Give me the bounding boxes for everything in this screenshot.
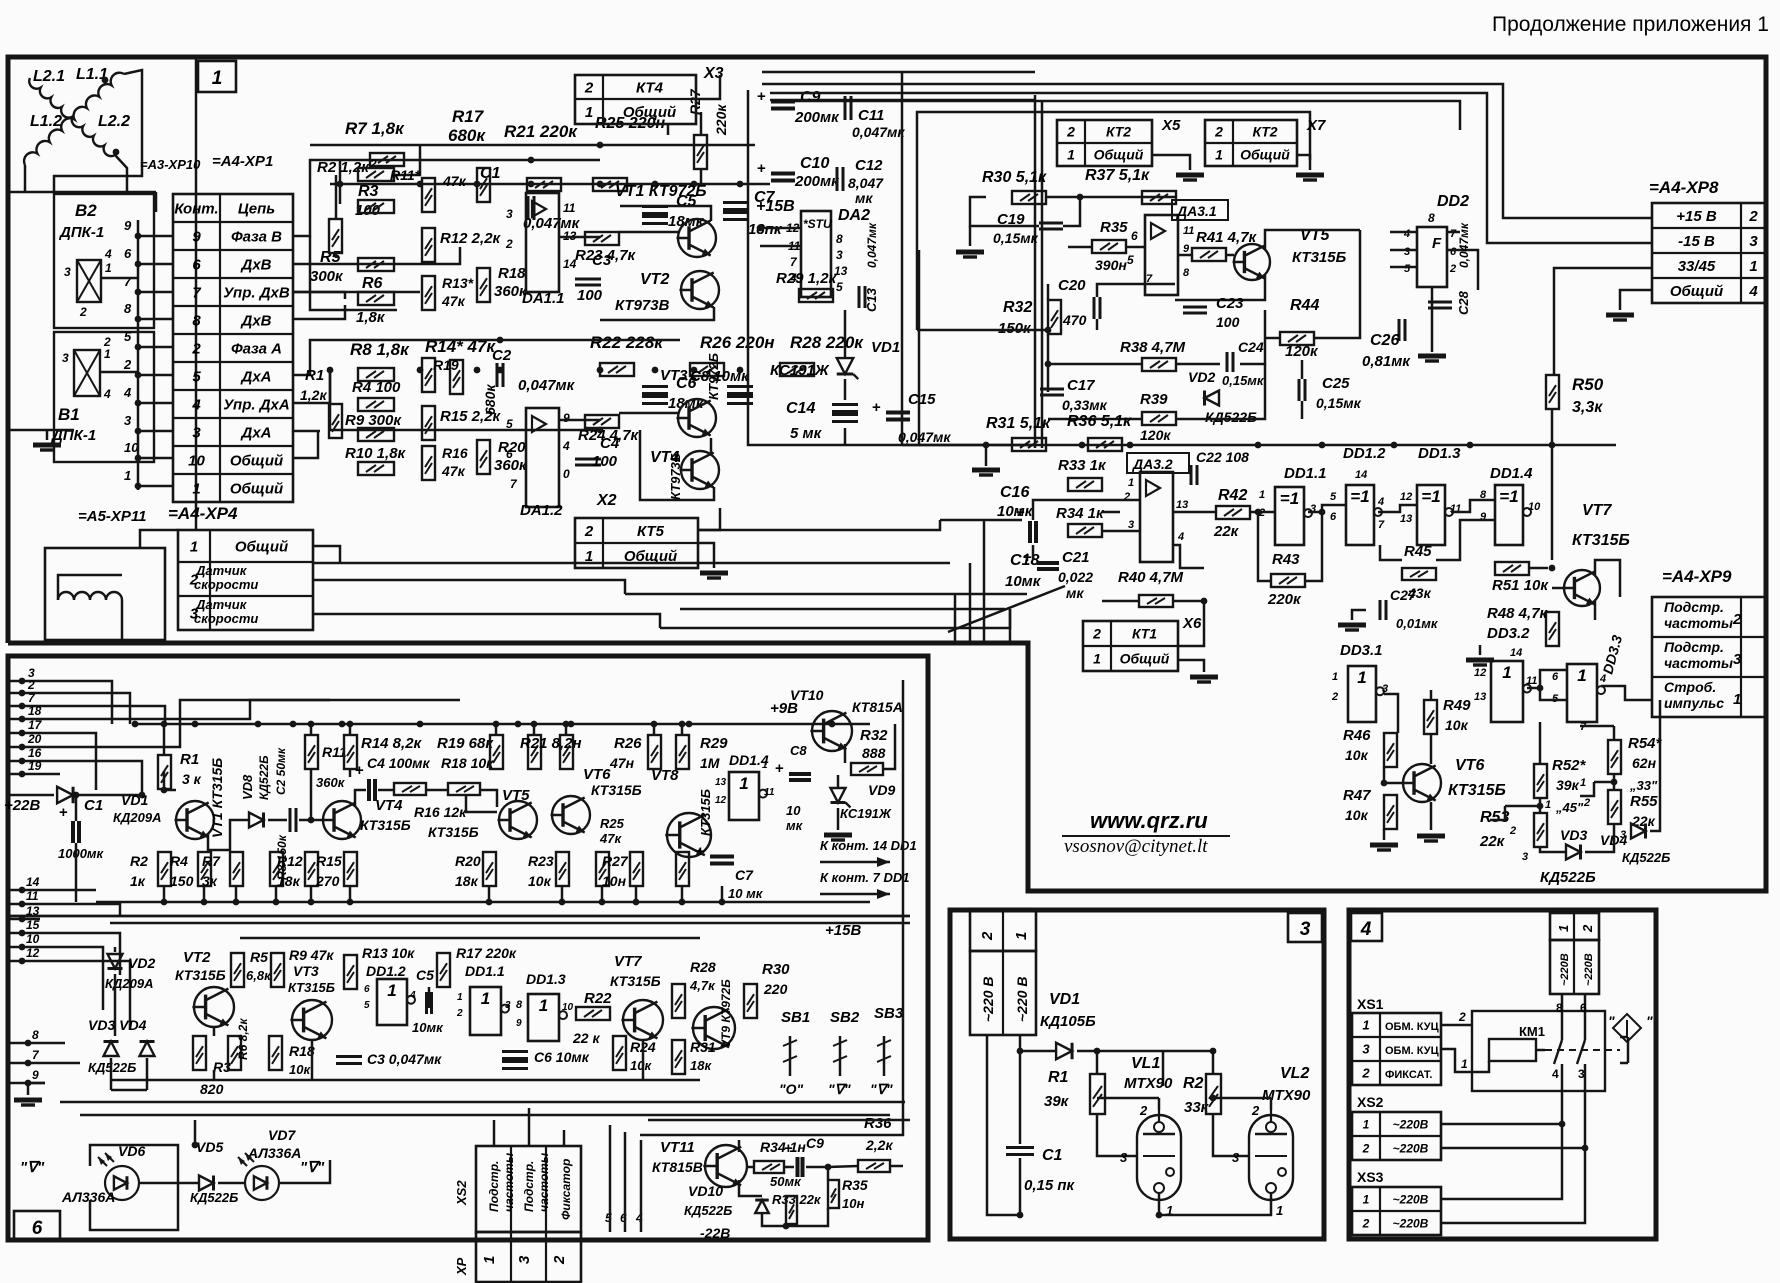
svg-text:5: 5 — [1127, 253, 1134, 267]
svg-text:Общий: Общий — [1120, 651, 1170, 667]
svg-text:6: 6 — [1131, 229, 1138, 243]
resistor R9b — [271, 953, 284, 987]
svg-text:13: 13 — [715, 777, 727, 788]
svg-text:1: 1 — [1545, 799, 1551, 811]
capacitor C19 — [1039, 222, 1063, 225]
capacitor C6b — [502, 1050, 528, 1053]
svg-text:C13: C13 — [864, 287, 879, 312]
svg-text:VL2: VL2 — [1280, 1065, 1309, 1082]
svg-text:Х7: Х7 — [1306, 117, 1326, 134]
svg-text:1: 1 — [1013, 932, 1030, 940]
svg-text:R33 1к: R33 1к — [1058, 457, 1107, 474]
wire C16 rail — [940, 519, 1022, 522]
resistor R18b vert — [528, 735, 541, 769]
svg-text:4: 4 — [1403, 228, 1410, 240]
sensor B1 X box — [74, 350, 100, 396]
svg-text:270: 270 — [315, 873, 340, 889]
svg-text:F: F — [1432, 235, 1442, 252]
svg-text:2: 2 — [1748, 208, 1758, 225]
svg-text:+: + — [1023, 549, 1032, 566]
inner box right — [648, 1119, 910, 1122]
svg-text:10: 10 — [26, 932, 40, 946]
svg-text:8: 8 — [516, 999, 523, 1011]
wires VT7 — [1529, 567, 1548, 570]
svg-text:150: 150 — [170, 873, 194, 889]
wire rail y145 — [310, 144, 755, 147]
svg-text:ДПК-1: ДПК-1 — [58, 224, 104, 241]
resistor R15 vert — [422, 406, 435, 440]
svg-text:Общий: Общий — [230, 452, 283, 469]
svg-text:КТ973В: КТ973В — [615, 297, 670, 314]
svg-text:C4 100мк: C4 100мк — [367, 755, 431, 771]
resistor R14b — [394, 783, 426, 795]
wires sensors to XP1 with pin numbers — [138, 235, 173, 238]
svg-text:R44: R44 — [1290, 297, 1319, 314]
wires VT1 VT2 — [619, 231, 678, 234]
block 6 frame — [8, 656, 928, 1240]
svg-text:200мк: 200мк — [794, 173, 840, 190]
svg-text:R19 68к: R19 68к — [437, 735, 494, 752]
wire R41 VT5 — [1178, 254, 1192, 257]
ground sensor left — [8, 429, 74, 432]
svg-text:DA2: DA2 — [838, 207, 870, 224]
capacitor C5b — [425, 992, 428, 1014]
resistor R30b — [744, 984, 757, 1018]
svg-text:0: 0 — [563, 467, 570, 481]
svg-text:+: + — [872, 399, 881, 416]
svg-text:4: 4 — [562, 439, 570, 453]
svg-text:"∇": "∇" — [870, 1081, 893, 1097]
svg-text:частоты: частоты — [1664, 655, 1733, 671]
svg-text:C5: C5 — [416, 967, 434, 983]
svg-text:4: 4 — [1748, 283, 1758, 300]
resistor R18 360k — [477, 268, 490, 302]
thyratron VL2 — [1249, 1115, 1293, 1200]
svg-text:КТ315Б: КТ315Б — [175, 967, 226, 983]
svg-text:5: 5 — [506, 417, 513, 431]
svg-text:R18 10к: R18 10к — [441, 755, 494, 771]
svg-text:VD9: VD9 — [868, 782, 895, 798]
svg-text:ХР: ХР — [454, 1257, 469, 1276]
svg-text:1: 1 — [1363, 1117, 1370, 1131]
svg-text:2: 2 — [123, 357, 132, 372]
diode VD4 — [1631, 824, 1646, 839]
svg-text:КТ315Б: КТ315Б — [1448, 782, 1506, 799]
wire coil leads — [115, 155, 127, 192]
svg-text:2: 2 — [27, 678, 35, 692]
capacitor C23 — [1183, 306, 1207, 309]
svg-text:R35: R35 — [842, 1177, 868, 1193]
svg-text:1: 1 — [1332, 671, 1338, 683]
block 3 frame — [950, 910, 1324, 1239]
trunk rail R31 R36 — [902, 444, 1616, 447]
svg-text:SB2: SB2 — [830, 1009, 860, 1026]
svg-text:"∇": "∇" — [20, 1159, 45, 1176]
svg-text:DD1.3: DD1.3 — [1418, 445, 1461, 462]
svg-text:1,2к: 1,2к — [300, 387, 327, 403]
svg-text:DD1.4: DD1.4 — [1490, 465, 1533, 482]
svg-text:Общий: Общий — [235, 538, 288, 555]
svg-text:9: 9 — [516, 1018, 522, 1029]
svg-text:C23: C23 — [1216, 295, 1244, 312]
svg-text:VT1 КТ315Б: VT1 КТ315Б — [209, 758, 225, 838]
svg-text:R50: R50 — [1572, 375, 1604, 394]
svg-text:12: 12 — [1400, 491, 1412, 503]
svg-text:VT5: VT5 — [502, 787, 530, 804]
svg-text:XS3: XS3 — [1357, 1169, 1384, 1185]
svg-text:В1: В1 — [58, 405, 80, 424]
svg-text:9: 9 — [32, 1068, 39, 1082]
connector table XP1 — [173, 194, 293, 502]
capacitor C8 — [727, 385, 753, 388]
vertical inter-block wires — [954, 594, 957, 643]
transistor VT10 — [812, 711, 852, 751]
connector table X5 — [1057, 120, 1152, 166]
resistor R35b — [828, 1180, 839, 1208]
svg-text:2: 2 — [1580, 924, 1595, 933]
svg-text:КС191Ж: КС191Ж — [840, 806, 892, 821]
diode VD1 block3 — [1056, 1043, 1072, 1060]
svg-text:Датчик: Датчик — [195, 597, 248, 612]
resistor R6b — [228, 1036, 241, 1070]
capacitor C2 — [496, 363, 499, 387]
svg-text:VD3 VD4: VD3 VD4 — [88, 1017, 147, 1033]
svg-text:3: 3 — [1362, 1042, 1370, 1057]
svg-text:~220В: ~220В — [1583, 953, 1595, 986]
svg-text:10к: 10к — [1445, 717, 1469, 733]
svg-text:6: 6 — [1330, 511, 1337, 523]
svg-text:0,047мк: 0,047мк — [898, 429, 951, 445]
capacitor C25 — [1298, 379, 1301, 401]
block4 connector table 220V rotated — [1550, 913, 1599, 940]
svg-text:КТ2: КТ2 — [1106, 124, 1131, 140]
svg-text:R52*: R52* — [1552, 757, 1587, 774]
svg-text:VT6: VT6 — [1455, 757, 1484, 774]
svg-text:5: 5 — [1404, 263, 1411, 275]
svg-text:„33": „33" — [1629, 778, 1658, 793]
svg-text:КД105Б: КД105Б — [1040, 1013, 1096, 1030]
svg-text:C3: C3 — [592, 252, 612, 269]
svg-text:888: 888 — [862, 745, 886, 761]
resistor R32 150k — [1048, 300, 1061, 334]
svg-text:2: 2 — [551, 1255, 568, 1265]
junction dots rail A — [327, 367, 334, 374]
svg-text:0,15мк: 0,15мк — [1222, 373, 1265, 388]
svg-text:2: 2 — [584, 523, 594, 540]
wire KT5 — [698, 543, 714, 568]
transistor VT3b — [292, 1000, 332, 1040]
svg-text:100: 100 — [1216, 314, 1240, 330]
svg-text:4: 4 — [409, 990, 416, 1001]
svg-text:10к: 10к — [1345, 807, 1369, 823]
svg-text:DD2: DD2 — [1437, 193, 1469, 210]
capacitor C1 — [527, 196, 530, 220]
svg-text:Упр. ДхА: Упр. ДхА — [223, 396, 289, 413]
svg-text:DD1.1: DD1.1 — [465, 963, 505, 979]
transistor VT5b — [499, 801, 537, 839]
svg-text:4: 4 — [1377, 496, 1384, 508]
wires R52-R55 cluster — [1539, 722, 1542, 764]
wires VT11 area — [739, 1180, 762, 1196]
svg-text:частоты: частоты — [537, 1152, 551, 1212]
sensor B1 DPK-1 box — [54, 332, 154, 462]
svg-text:8: 8 — [1556, 1001, 1563, 1015]
svg-text:1: 1 — [1363, 1192, 1370, 1206]
svg-text:7: 7 — [192, 284, 201, 301]
capacitor C22 — [1190, 465, 1193, 485]
wires C4-R16 — [355, 790, 366, 807]
wires DD1 gates — [1250, 511, 1275, 514]
svg-text:150к: 150к — [998, 320, 1032, 337]
svg-text:3: 3 — [192, 424, 201, 441]
svg-text:12: 12 — [715, 795, 727, 806]
resistor R1b 3k — [158, 755, 171, 789]
svg-text:10мк: 10мк — [1005, 573, 1042, 590]
svg-text:R21 220к: R21 220к — [504, 122, 578, 141]
svg-text:ДхА: ДхА — [239, 368, 271, 385]
numbered input stubs top — [8, 680, 40, 683]
svg-text:Х5: Х5 — [1161, 117, 1181, 134]
svg-text:220к: 220к — [713, 104, 729, 136]
svg-text:VT6: VT6 — [583, 766, 611, 783]
svg-text:R4: R4 — [170, 853, 188, 869]
svg-text:1: 1 — [105, 261, 112, 275]
svg-text:6: 6 — [1580, 1001, 1587, 1015]
svg-text:VD2: VD2 — [128, 955, 155, 971]
svg-text:3: 3 — [836, 248, 843, 262]
svg-text:C3 0,047мк: C3 0,047мк — [367, 1051, 442, 1067]
capacitor C3b — [336, 1055, 362, 1058]
svg-text:R28 220к: R28 220к — [790, 333, 864, 352]
op-amp DA3.2 — [1140, 472, 1173, 562]
svg-text:4: 4 — [104, 247, 112, 261]
svg-text:1: 1 — [1502, 663, 1511, 682]
svg-text:КТ5: КТ5 — [637, 523, 665, 540]
resistor R2 vertical — [329, 219, 342, 253]
row A bottom rail — [96, 901, 870, 904]
capacitor C5 — [642, 205, 668, 208]
svg-text:1: 1 — [104, 347, 111, 361]
trunk wire +15V to XP8 — [762, 84, 1652, 218]
svg-text:~220 В: ~220 В — [980, 976, 996, 1022]
svg-text:R14 8,2к: R14 8,2к — [361, 735, 423, 752]
svg-text:0,047мк: 0,047мк — [1457, 222, 1471, 268]
svg-text:ОБМ. КУЦ: ОБМ. КУЦ — [1385, 1021, 1439, 1033]
wires DA3.2 — [1033, 500, 1140, 520]
svg-text:3 к: 3 к — [182, 771, 202, 787]
svg-text:+15 В: +15 В — [1676, 208, 1717, 225]
svg-text:КТ315Б: КТ315Б — [591, 782, 642, 798]
svg-text:КТ1: КТ1 — [1132, 626, 1157, 642]
transistor VT4b — [323, 801, 361, 839]
svg-text:22к: 22к — [1213, 523, 1240, 540]
svg-text:VT2: VT2 — [640, 271, 669, 288]
svg-text:10к: 10к — [1345, 747, 1369, 763]
resistor R24b — [613, 1036, 626, 1070]
wires XS2 XS3 to contacts — [1441, 1123, 1562, 1126]
svg-text:R7 1,8к: R7 1,8к — [345, 119, 405, 138]
svg-text:VT8: VT8 — [651, 767, 679, 784]
svg-text:0,33мк: 0,33мк — [1062, 397, 1108, 413]
svg-text:VL1: VL1 — [1131, 1055, 1160, 1072]
svg-text:L2.1: L2.1 — [33, 68, 65, 85]
svg-text:~220В: ~220В — [1393, 1216, 1429, 1230]
wires XP1 row exits — [293, 247, 460, 264]
svg-text:47к: 47к — [441, 463, 466, 479]
svg-text:1: 1 — [1461, 1057, 1468, 1071]
wire X3 — [696, 75, 720, 99]
capacitor C27 — [1379, 600, 1382, 620]
svg-text:DA1.2: DA1.2 — [520, 502, 563, 519]
svg-text:www.qrz.ru: www.qrz.ru — [1090, 808, 1208, 833]
svg-text:3: 3 — [1120, 1150, 1128, 1165]
resistor R11* 47k — [422, 178, 435, 212]
svg-text:100: 100 — [577, 287, 603, 304]
junction dots y445 rail — [1127, 442, 1134, 449]
resistor R5b — [231, 953, 244, 987]
svg-text:220к: 220к — [1267, 591, 1302, 608]
svg-text:680к: 680к — [448, 126, 486, 145]
svg-text:VT7: VT7 — [1582, 502, 1612, 519]
wires DA2 left — [760, 227, 801, 230]
svg-text:+: + — [757, 160, 766, 177]
connector table XP8 — [1652, 203, 1766, 303]
svg-text:VD1: VD1 — [871, 339, 900, 356]
svg-text:1: 1 — [1357, 668, 1366, 687]
svg-text:Цепь: Цепь — [238, 200, 275, 217]
block 6 label box — [14, 1211, 60, 1241]
resistor R50 3,3k — [1546, 375, 1559, 409]
transistor VT7b — [623, 1000, 663, 1040]
block3 connector table 220V — [970, 911, 1036, 951]
svg-text:Общий: Общий — [623, 104, 676, 121]
svg-text:КТ2: КТ2 — [1252, 124, 1277, 140]
svg-text:6: 6 — [1552, 671, 1559, 683]
svg-text:3: 3 — [64, 265, 71, 279]
gate DD3.3 — [1567, 664, 1597, 722]
svg-text:1: 1 — [585, 104, 593, 121]
svg-text:КД522Б: КД522Б — [257, 755, 271, 800]
svg-text:2: 2 — [456, 1008, 463, 1019]
svg-text:R42: R42 — [1218, 487, 1247, 504]
svg-text:3: 3 — [516, 1255, 533, 1264]
svg-text:33/45: 33/45 — [1678, 258, 1716, 275]
resistor R13 47k — [422, 276, 435, 310]
svg-text:3: 3 — [1733, 651, 1742, 668]
svg-text:C7: C7 — [735, 867, 754, 883]
svg-text:8,047: 8,047 — [848, 175, 884, 191]
gate DD1.2 — [1346, 485, 1374, 545]
svg-text:Подстр.: Подстр. — [1664, 639, 1724, 655]
svg-text:+: + — [355, 762, 364, 779]
svg-text:C27: C27 — [1390, 587, 1417, 603]
bottom row resistors under row A — [158, 852, 171, 886]
svg-text:4: 4 — [1360, 919, 1372, 940]
svg-text:VT7: VT7 — [614, 953, 642, 970]
svg-text:КТ815В: КТ815В — [652, 1159, 703, 1175]
svg-text:0,047мк: 0,047мк — [518, 377, 576, 394]
svg-text:8: 8 — [124, 301, 132, 316]
wire sensor collector — [137, 220, 140, 490]
svg-text:+: + — [59, 804, 68, 821]
svg-text:-15 В: -15 В — [1678, 233, 1715, 250]
resistor R53 22k — [1534, 813, 1547, 847]
resistor R49 10k — [1424, 700, 1437, 734]
svg-text:0,81мк: 0,81мк — [1362, 353, 1411, 370]
relay contacts — [1561, 994, 1564, 1040]
svg-text:частоты: частоты — [1664, 615, 1733, 631]
transistor VT5 — [1234, 244, 1270, 280]
svg-text:3: 3 — [506, 207, 513, 221]
svg-text:100: 100 — [592, 453, 618, 470]
svg-text:R29 1,2к: R29 1,2к — [776, 270, 838, 287]
svg-text:C6 10мк: C6 10мк — [534, 1049, 590, 1065]
resistor R11b 360k — [305, 735, 318, 769]
ground C19 — [969, 226, 972, 246]
svg-text:R32: R32 — [1003, 299, 1032, 316]
svg-text:2: 2 — [1361, 1066, 1370, 1081]
svg-text:2: 2 — [584, 79, 594, 96]
svg-text:R10 1,8к: R10 1,8к — [345, 445, 407, 462]
resistor R9 — [358, 428, 394, 441]
svg-text:ДхА: ДхА — [239, 424, 271, 441]
svg-text:"∇": "∇" — [828, 1081, 851, 1097]
resistor R13b — [344, 735, 357, 769]
svg-text:R2: R2 — [1183, 1075, 1204, 1092]
wires KM1 — [1441, 1024, 1472, 1027]
svg-text:КМ1: КМ1 — [1519, 1024, 1545, 1039]
svg-text:~220 В: ~220 В — [1014, 976, 1030, 1022]
svg-text:12: 12 — [26, 946, 40, 960]
svg-text:5: 5 — [124, 329, 132, 344]
svg-text:R9 47к: R9 47к — [289, 947, 334, 963]
svg-text:+: + — [1016, 504, 1025, 521]
wires VT10 area — [844, 744, 847, 763]
wire XP8 gnd — [1620, 290, 1652, 310]
svg-text:22к: 22к — [1479, 833, 1506, 850]
svg-text:1: 1 — [762, 760, 768, 771]
svg-text:DD1.2: DD1.2 — [366, 963, 406, 979]
resistor R27 — [694, 135, 707, 169]
svg-text:АЛ336А: АЛ336А — [61, 1189, 115, 1205]
svg-text:C8: C8 — [790, 743, 807, 758]
resistor R22a — [600, 363, 634, 376]
capacitor C6 — [642, 385, 668, 388]
svg-text:2: 2 — [103, 335, 111, 349]
svg-text:Продолжение приложения 1: Продолжение приложения 1 — [1492, 13, 1769, 36]
svg-text:VT2: VT2 — [183, 949, 211, 966]
svg-text:2: 2 — [191, 340, 201, 357]
wires row B — [213, 1027, 216, 1036]
svg-text:ДА3.1: ДА3.1 — [1176, 203, 1217, 219]
resistor R51 10k — [1495, 562, 1529, 575]
PLL section boundary wire — [917, 112, 1310, 330]
inner box buttons — [640, 680, 903, 1135]
svg-text:19: 19 — [28, 759, 42, 773]
svg-text:3: 3 — [1620, 829, 1626, 841]
svg-text:470: 470 — [1062, 312, 1087, 328]
svg-text:DD3.1: DD3.1 — [1340, 642, 1383, 659]
wire DA2 bottom — [747, 444, 750, 447]
svg-text:2: 2 — [1509, 825, 1516, 837]
svg-text:200мк: 200мк — [794, 109, 840, 126]
svg-text:9: 9 — [192, 228, 201, 245]
svg-text:скорости: скорости — [194, 577, 258, 592]
svg-text:8: 8 — [836, 232, 843, 246]
wire DA1.1 out — [559, 236, 600, 239]
capacitor C2b — [289, 808, 292, 832]
svg-text:11: 11 — [26, 889, 39, 903]
